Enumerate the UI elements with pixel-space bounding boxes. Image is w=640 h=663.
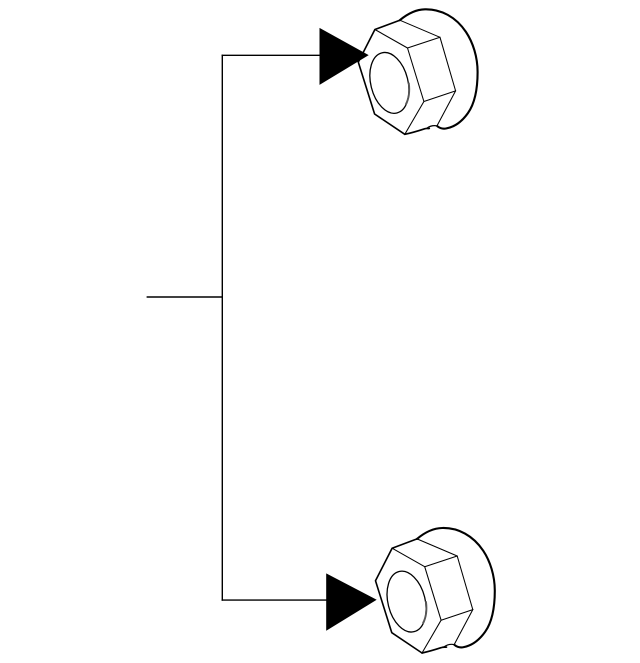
back hex top edge — [417, 539, 457, 556]
back hex lower-right edge to lip — [437, 91, 456, 126]
back hex right edge — [440, 37, 456, 91]
threaded hole ellipse — [381, 567, 432, 636]
bottom lip between hex and flange — [405, 128, 430, 134]
back hex top edge — [400, 20, 440, 37]
top facet edge C to back corner — [408, 37, 441, 48]
hex body silhouette (left/top/bottom outer edges) — [358, 20, 405, 134]
front face inner edges B-C, C-D, D-E — [375, 30, 424, 135]
bottom lip between hex and flange — [422, 647, 447, 653]
wire: top horizontal leader — [222, 54, 321, 56]
flange (washer) outline — [417, 528, 495, 647]
back hex right edge — [457, 556, 473, 610]
wire: vertical bracket line — [221, 55, 223, 601]
extrusion edge D to D_back — [441, 610, 473, 621]
arrowhead pointing to bottom nut — [326, 573, 377, 630]
wire: bottom horizontal leader — [222, 599, 328, 601]
arrowhead pointing to top nut — [320, 28, 369, 85]
wire: left leader stub — [147, 296, 223, 298]
hex body silhouette (left/top/bottom outer edges) — [376, 539, 423, 653]
hole shading arc (thicker lower-right) — [423, 602, 426, 623]
back hex lower-right edge to lip — [454, 610, 473, 645]
hex flange nut (bottom) — [376, 528, 495, 653]
front face inner edges B-C, C-D, D-E — [392, 548, 441, 653]
flange (washer) outline — [400, 9, 478, 128]
extrusion edge D to D_back — [424, 91, 456, 102]
threaded hole ellipse — [364, 48, 415, 117]
hex flange nut (top) — [358, 9, 477, 134]
hole shading arc (thicker lower-right) — [406, 83, 409, 104]
neck arc in front of flange — [444, 644, 454, 647]
top facet edge C to back corner — [425, 556, 458, 567]
neck arc in front of flange — [427, 126, 437, 129]
